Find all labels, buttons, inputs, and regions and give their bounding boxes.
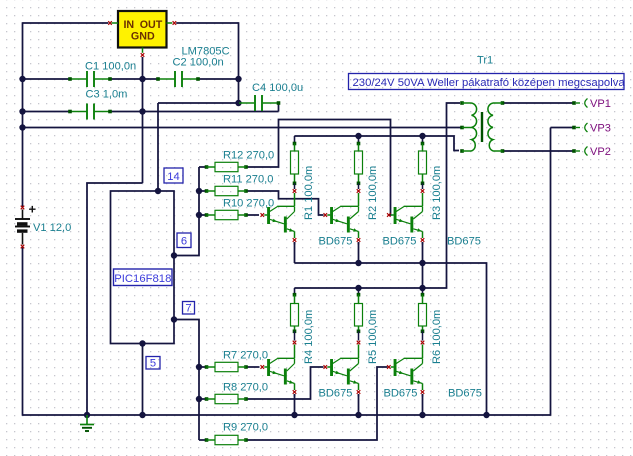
svg-text:LM7805C: LM7805C bbox=[182, 46, 230, 58]
svg-text:V1 12,0: V1 12,0 bbox=[33, 222, 71, 234]
svg-text:VP1: VP1 bbox=[590, 98, 611, 110]
svg-text:C1 100,0n: C1 100,0n bbox=[85, 61, 136, 73]
svg-text:VP2: VP2 bbox=[590, 146, 611, 158]
svg-text:R4 100,0m: R4 100,0m bbox=[303, 310, 315, 364]
svg-text:R11 270,0: R11 270,0 bbox=[223, 174, 273, 186]
svg-text:R8 270,0: R8 270,0 bbox=[223, 382, 268, 394]
svg-text:IN: IN bbox=[123, 19, 134, 31]
svg-text:5: 5 bbox=[150, 358, 156, 370]
svg-text:BD675: BD675 bbox=[319, 388, 353, 400]
svg-text:BD675: BD675 bbox=[448, 388, 482, 400]
svg-text:R1 100,0m: R1 100,0m bbox=[303, 166, 315, 220]
svg-text:R10 270,0: R10 270,0 bbox=[223, 198, 274, 210]
svg-text:R9 270,0: R9 270,0 bbox=[223, 422, 268, 434]
svg-text:C4 100,0u: C4 100,0u bbox=[252, 82, 303, 94]
svg-text:C2 100,0n: C2 100,0n bbox=[173, 57, 224, 69]
svg-text:BD675: BD675 bbox=[383, 236, 417, 248]
svg-text:R7 270,0: R7 270,0 bbox=[223, 350, 268, 362]
svg-text:OUT: OUT bbox=[140, 19, 163, 31]
svg-text:14: 14 bbox=[167, 171, 179, 183]
svg-text:R6 100,0m: R6 100,0m bbox=[431, 310, 443, 364]
svg-text:C3 1,0m: C3 1,0m bbox=[86, 89, 128, 101]
svg-text:BD675: BD675 bbox=[384, 388, 418, 400]
svg-text:VP3: VP3 bbox=[590, 123, 611, 135]
svg-text:230/24V 50VA Weller pákatrafó: 230/24V 50VA Weller pákatrafó középen me… bbox=[353, 77, 626, 89]
svg-text:+: + bbox=[29, 202, 37, 217]
svg-text:PIC16F818: PIC16F818 bbox=[114, 273, 171, 285]
svg-text:R5 100,0m: R5 100,0m bbox=[367, 310, 379, 364]
svg-text:R3 100,0m: R3 100,0m bbox=[431, 166, 443, 220]
svg-text:GND: GND bbox=[131, 31, 155, 43]
svg-text:BD675: BD675 bbox=[447, 236, 481, 248]
svg-text:7: 7 bbox=[185, 303, 191, 315]
svg-text:Tr1: Tr1 bbox=[477, 55, 493, 67]
svg-text:R2 100,0m: R2 100,0m bbox=[367, 166, 379, 220]
svg-text:R12 270,0: R12 270,0 bbox=[223, 150, 274, 162]
svg-text:BD675: BD675 bbox=[319, 236, 353, 248]
svg-text:6: 6 bbox=[181, 236, 187, 248]
